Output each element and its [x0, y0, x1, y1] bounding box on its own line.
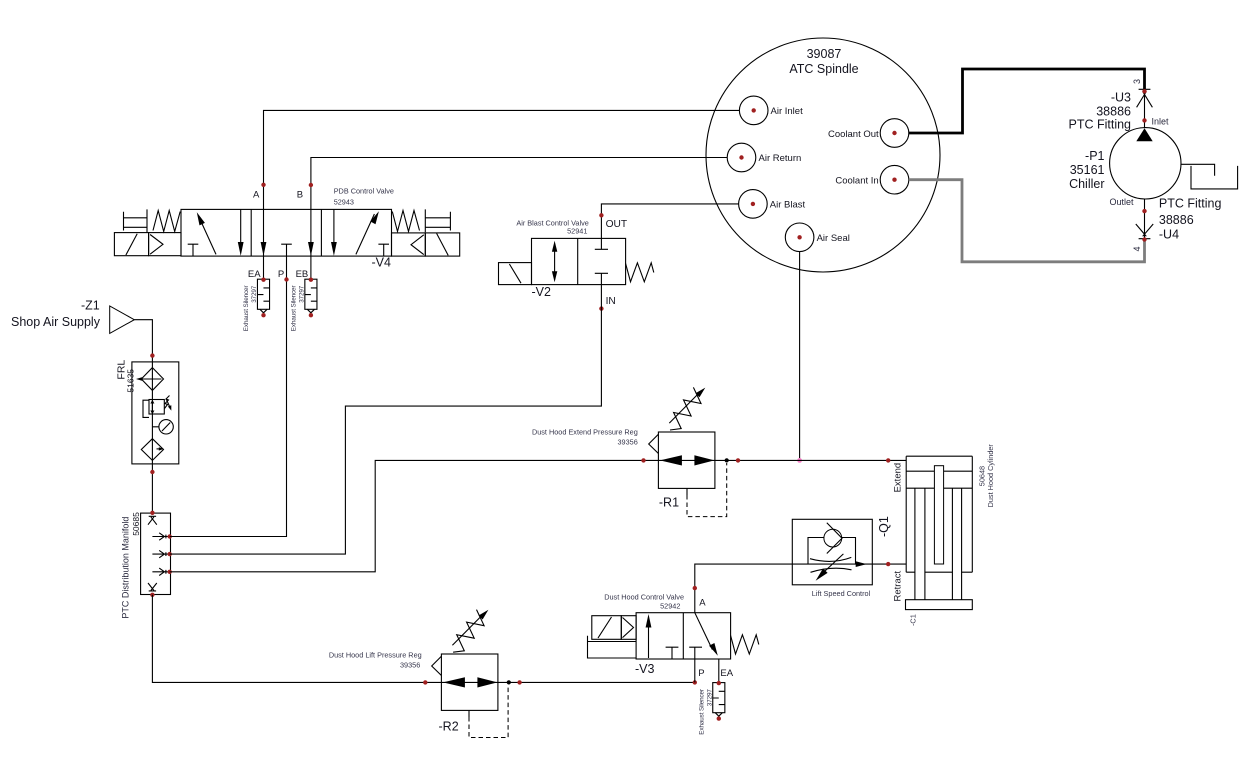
svg-text:52941: 52941: [567, 227, 587, 236]
V4 right position down arrow: [331, 209, 337, 256]
valve -V2 Air Blast Control Valve 52941: [532, 238, 626, 284]
V4 right pilot: [392, 233, 426, 256]
svg-text:A: A: [253, 190, 260, 201]
svg-text:-C1: -C1: [909, 614, 918, 626]
V2 solenoid: [499, 263, 532, 285]
svg-text:-V3: -V3: [635, 662, 655, 676]
V3 labels: [604, 593, 734, 680]
port Air Blast: [739, 190, 806, 219]
svg-text:Air Blast: Air Blast: [770, 200, 806, 211]
node air seal junction (pink): [797, 458, 802, 463]
V4 left manual override: [124, 209, 148, 232]
svg-text:PTC Fitting: PTC Fitting: [1068, 118, 1131, 132]
V3 solenoid: [588, 616, 637, 659]
chiller -P1 35161: [1069, 128, 1181, 199]
node A: [261, 183, 265, 187]
port Air Seal: [785, 223, 850, 252]
svg-text:Exhaust Silencer: Exhaust Silencer: [291, 286, 298, 332]
wire supply to FRL to manifold: [134, 320, 152, 513]
wire Air Seal down: [799, 252, 801, 461]
wire V3 P stem: [694, 659, 696, 682]
valve -V3 Dust Hood Control Valve 52942: [636, 613, 731, 659]
svg-text:Extend: Extend: [893, 463, 904, 493]
node R1 in: [641, 458, 645, 462]
V4 right manual override: [425, 209, 450, 232]
wire B to Air Return: [311, 158, 727, 210]
svg-text:-Z1: -Z1: [81, 299, 100, 313]
FRL 51635: [116, 360, 179, 464]
node FRL in: [150, 353, 154, 357]
node B: [309, 183, 313, 187]
V4 right position T: [378, 244, 389, 256]
svg-text:A: A: [699, 598, 706, 609]
svg-text:Dust Hood Control Valve: Dust Hood Control Valve: [604, 593, 684, 602]
svg-text:52943: 52943: [334, 198, 354, 207]
node R1 pilot junction: [725, 458, 729, 462]
svg-text:Air Seal: Air Seal: [817, 233, 850, 244]
V3 spring: [731, 635, 759, 654]
exhaust silencer 37257 on EB: [305, 278, 317, 318]
node IN: [599, 306, 603, 310]
svg-text:50685: 50685: [131, 512, 141, 536]
node FRL out: [150, 470, 154, 474]
node V3 P: [693, 680, 697, 684]
svg-text:Coolant In: Coolant In: [835, 176, 878, 187]
node 3: [1132, 79, 1142, 84]
V4 right position diagonal arrow: [356, 211, 379, 254]
svg-text:37297: 37297: [299, 285, 306, 303]
V4 left position down arrow: [238, 209, 244, 256]
svg-text:Air Return: Air Return: [759, 153, 802, 164]
wire EA through valve: [263, 209, 265, 279]
PTC fitting -U4: [1109, 197, 1221, 242]
wire manifold3 to R1 and cylinder extend: [170, 460, 907, 571]
regulator -R1 Dust Hood Extend Pressure Reg 39356: [649, 387, 715, 488]
node manifold bottom: [150, 593, 154, 597]
svg-text:-V4: -V4: [372, 256, 392, 270]
V4 center P T: [281, 244, 292, 256]
cylinder -C1 Dust Hood Cylinder 50648: [893, 444, 996, 626]
V4 right solenoid: [425, 233, 459, 256]
svg-text:PTC Distribution Manifold: PTC Distribution Manifold: [121, 517, 131, 619]
V2 spring: [626, 263, 654, 282]
svg-text:39356: 39356: [400, 661, 420, 670]
node 4: [1132, 246, 1142, 251]
flow control -Q1 Lift Speed Control: [792, 516, 891, 598]
V4 left position T: [188, 244, 199, 256]
wire manifold2 to V2 IN: [170, 285, 602, 554]
V4 right spring: [392, 211, 419, 232]
regulator -R2 Dust Hood Lift Pressure Reg 39356: [432, 610, 498, 711]
V4 left pilot: [149, 233, 181, 256]
svg-text:Dust Hood Lift Pressure Reg: Dust Hood Lift Pressure Reg: [329, 651, 422, 660]
V2 right position Ts: [595, 238, 608, 284]
V4 labels: [248, 187, 394, 281]
node R2 in: [423, 680, 427, 684]
wire chiller outlet to Coolant In (thick gray): [909, 180, 1145, 262]
wire A to Air Inlet: [264, 110, 740, 209]
V4 center B down arrow: [308, 242, 314, 256]
svg-text:38886: 38886: [1096, 105, 1131, 119]
ATC Spindle 39087 outline: [706, 38, 940, 272]
R1 pilot dashed line: [687, 463, 727, 517]
PTC fitting -U3: [1068, 89, 1169, 131]
port Air Return: [727, 143, 801, 172]
V4 left solenoid: [114, 233, 148, 256]
V2 left position double arrow: [552, 241, 557, 283]
svg-text:B: B: [297, 190, 303, 201]
source -Z1 Shop Air Supply: [11, 299, 134, 334]
port Air Inlet: [739, 96, 803, 125]
svg-text:EB: EB: [296, 269, 309, 280]
svg-text:Inlet: Inlet: [1152, 117, 1170, 127]
svg-text:Lift Speed Control: Lift Speed Control: [812, 589, 871, 598]
node retract: [886, 562, 890, 566]
svg-text:EA: EA: [248, 269, 261, 280]
svg-text:Outlet: Outlet: [1109, 197, 1134, 207]
svg-text:39087: 39087: [807, 47, 842, 61]
svg-text:37297: 37297: [251, 285, 258, 303]
node manifold top: [150, 511, 154, 515]
svg-text:-U4: -U4: [1159, 228, 1179, 242]
svg-text:-R2: -R2: [439, 720, 459, 734]
svg-text:EA: EA: [720, 668, 733, 679]
svg-text:-P1: -P1: [1085, 149, 1105, 163]
svg-text:Dust Hood Extend Pressure Reg: Dust Hood Extend Pressure Reg: [532, 427, 638, 436]
valve -V4 PDB Control Valve 52943 body: [181, 209, 392, 256]
V3 left position T: [666, 647, 679, 659]
wire V2 OUT to Air Blast: [601, 204, 738, 239]
svg-text:38886: 38886: [1159, 213, 1194, 227]
svg-text:35161: 35161: [1070, 163, 1105, 177]
svg-text:3: 3: [1132, 79, 1142, 84]
exhaust silencer 37257 on EA: [257, 278, 269, 318]
svg-text:-U3: -U3: [1111, 91, 1131, 105]
V4 left spring: [153, 211, 180, 232]
svg-text:-V2: -V2: [532, 285, 552, 299]
V2 labels: [516, 218, 627, 307]
wire V3 EA to silencer: [718, 659, 720, 683]
svg-text:Retract: Retract: [893, 571, 904, 602]
wire manifold1 to V4 P: [170, 256, 287, 536]
svg-text:-Q1: -Q1: [877, 516, 891, 537]
svg-text:Chiller: Chiller: [1069, 177, 1104, 191]
manifold fitting 3: [152, 568, 172, 575]
chiller vent bracket: [1181, 164, 1238, 189]
svg-text:PTC Fitting: PTC Fitting: [1159, 197, 1222, 211]
exhaust silencer 37257 on V3 EA: [713, 681, 725, 721]
svg-text:P: P: [698, 668, 704, 679]
node R2 out: [517, 680, 521, 684]
wire EB through valve: [310, 209, 312, 279]
node R2 pilot junction: [507, 680, 511, 684]
node V3 A: [693, 586, 697, 590]
PTC Distribution Manifold 50685: [121, 512, 171, 619]
node OUT: [599, 213, 603, 217]
port Coolant Out: [828, 119, 909, 148]
manifold fitting 1: [152, 533, 172, 540]
R2 pilot dashed line: [469, 685, 508, 738]
svg-text:Coolant Out: Coolant Out: [828, 129, 879, 140]
svg-text:ATC Spindle: ATC Spindle: [789, 62, 858, 76]
node R1 out: [736, 458, 740, 462]
node P: [284, 277, 288, 281]
svg-text:37297: 37297: [707, 689, 714, 707]
wire manifold bottom to R2 and V3 P: [152, 595, 694, 683]
V3 right position diagonal arrow: [695, 613, 718, 656]
port Coolant In: [835, 165, 908, 194]
node extend: [886, 458, 890, 462]
svg-text:Exhaust Silencer: Exhaust Silencer: [699, 689, 706, 735]
svg-text:4: 4: [1132, 246, 1142, 251]
svg-text:39356: 39356: [618, 437, 638, 446]
V4 left position diagonal arrow: [197, 212, 216, 254]
svg-text:Exhaust Silencer: Exhaust Silencer: [243, 286, 250, 332]
V3 right position P T: [689, 647, 702, 659]
svg-text:-R1: -R1: [659, 496, 679, 510]
svg-text:51635: 51635: [126, 369, 136, 393]
wire V3 A to Q1 to retract: [695, 564, 906, 613]
svg-text:52942: 52942: [660, 602, 680, 611]
svg-text:Air Inlet: Air Inlet: [771, 106, 804, 117]
svg-text:Dust Hood Cylinder: Dust Hood Cylinder: [986, 444, 995, 508]
V3 left position up arrow: [646, 614, 652, 658]
svg-text:IN: IN: [606, 296, 616, 307]
svg-text:OUT: OUT: [606, 219, 628, 230]
manifold fitting 2: [152, 550, 172, 557]
svg-text:PDB Control Valve: PDB Control Valve: [334, 187, 394, 196]
svg-text:Shop Air Supply: Shop Air Supply: [11, 315, 101, 329]
svg-text:P: P: [278, 269, 284, 280]
V4 center A down arrow: [261, 242, 267, 256]
wire Coolant Out to chiller inlet (thick): [909, 69, 1145, 133]
